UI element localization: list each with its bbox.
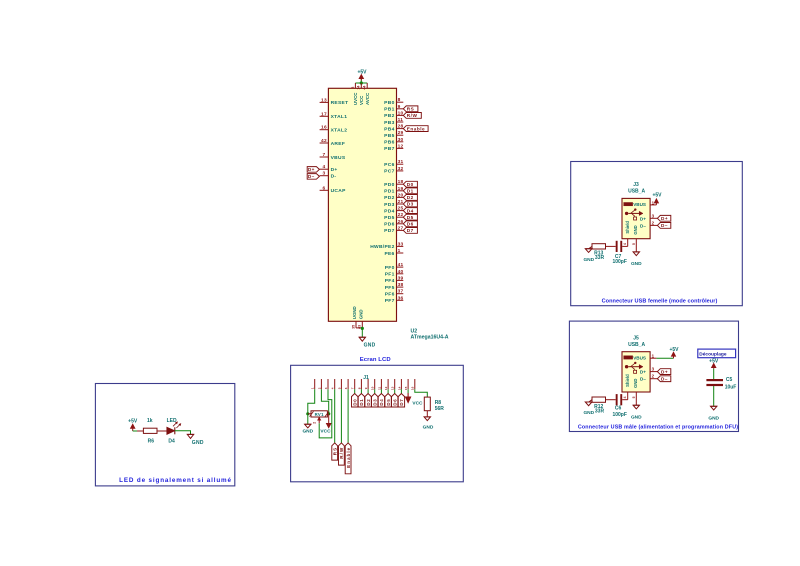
svg-text:5: 5 [632, 396, 636, 398]
pin 18 PD0 (right) [397, 183, 404, 185]
svg-text:4: 4 [623, 243, 627, 245]
svg-text:J5: J5 [633, 335, 639, 341]
wire J1 pin5 to label R/W [340, 389, 342, 443]
svg-text:GND: GND [192, 440, 204, 446]
junction bottom [361, 327, 364, 330]
svg-text:Découplage: Découplage [699, 352, 727, 358]
svg-text:12: 12 [384, 386, 388, 390]
svg-text:D4: D4 [168, 438, 175, 444]
svg-text:PB0: PB0 [384, 100, 394, 106]
pin 28 PB4 (right) [397, 128, 404, 130]
svg-text:XTAL1: XTAL1 [331, 114, 348, 120]
svg-text:Enable: Enable [346, 447, 351, 468]
svg-text:PB4: PB4 [384, 126, 394, 132]
svg-text:8: 8 [398, 97, 401, 103]
wire J1 pin9 to label D2 [367, 389, 369, 393]
pin 44 AVCC (top) [366, 83, 368, 88]
svg-text:10uF: 10uF [725, 384, 737, 390]
wire VBUS to +5V [656, 357, 673, 359]
svg-text:PC6: PC6 [384, 162, 394, 168]
svg-text:D+: D+ [331, 167, 338, 173]
svg-text:6: 6 [323, 185, 326, 191]
svg-text:6: 6 [344, 387, 348, 389]
svg-text:D0: D0 [407, 182, 414, 187]
svg-text:25: 25 [398, 206, 404, 212]
global label D7 [398, 394, 404, 408]
capacitor C plate wiring J5 [622, 399, 628, 401]
pin 11 PB3 (right) [397, 121, 404, 123]
power +5V at VBUS wire [673, 355, 675, 358]
pin 36 PF7 (right) [397, 299, 404, 301]
svg-text:36: 36 [398, 295, 404, 301]
svg-text:Shield: Shield [625, 221, 630, 234]
svg-text:Connecteur USB mâle (alimentat: Connecteur USB mâle (alimentation et pro… [578, 425, 738, 431]
svg-text:12: 12 [398, 143, 404, 149]
power +5V above U2 [360, 76, 362, 81]
svg-text:D7: D7 [399, 399, 404, 406]
connector J5 USB_A body [622, 352, 650, 392]
svg-text:D+: D+ [640, 370, 646, 375]
svg-text:41: 41 [398, 262, 404, 268]
svg-text:7: 7 [351, 387, 355, 389]
svg-text:PD2: PD2 [384, 195, 394, 201]
wire J1 pin13 to label D6 [394, 389, 396, 393]
svg-text:PD4: PD4 [384, 208, 394, 214]
svg-text:VCC: VCC [412, 400, 423, 406]
global label D0 [352, 394, 358, 408]
global label D+ [657, 215, 670, 221]
capacitor plates J3 [616, 241, 618, 252]
svg-text:GND: GND [358, 309, 363, 319]
svg-text:D0: D0 [353, 399, 358, 406]
power +5V at VBUS pin [655, 202, 657, 205]
pin 38 PF5 (right) [397, 286, 404, 288]
ground LED circuit [187, 433, 193, 435]
pin 4 D+ (left) [320, 168, 329, 170]
resistor 33R J3 chain [592, 244, 606, 249]
power VCC at RV1 right [328, 414, 330, 424]
wire +5V to top pins [355, 82, 367, 84]
svg-text:32: 32 [398, 166, 404, 172]
svg-text:Connecteur USB femelle (mode c: Connecteur USB femelle (mode contrôleur) [602, 298, 718, 304]
svg-text:VCC: VCC [320, 429, 331, 435]
pin 40 PF1 (right) [397, 273, 404, 275]
svg-text:GND: GND [364, 343, 376, 349]
pin 1 of J1 [314, 379, 316, 389]
note box LED [95, 384, 234, 486]
pin 8 of J1 [360, 379, 362, 389]
svg-text:9: 9 [364, 387, 368, 389]
capacitor C plate wiring J3 [622, 245, 628, 247]
svg-text:GND: GND [302, 429, 313, 435]
global label D2 [365, 394, 371, 408]
svg-text:GND: GND [708, 415, 719, 421]
junction RV1 right [327, 412, 330, 415]
pin 16 of J1 [414, 379, 416, 389]
wire J1 pin11 to label D4 [380, 389, 382, 393]
svg-text:33R: 33R [595, 409, 605, 415]
wire J1 pin14 to label D7 [400, 389, 402, 393]
wire J1 pin7 to label D0 [354, 389, 356, 393]
pin 37 PF6 (right) [397, 293, 404, 295]
wire J1 pin2 to RV1 right [321, 389, 328, 414]
svg-text:D–: D– [308, 174, 315, 179]
svg-text:UGND: UGND [352, 306, 357, 319]
svg-text:D–: D– [640, 223, 646, 228]
svg-text:11: 11 [377, 386, 381, 390]
svg-text:D–: D– [640, 377, 646, 382]
pin 7 VBUS (left) [320, 156, 329, 158]
svg-text:13: 13 [321, 97, 327, 103]
note box Ecran LCD [291, 365, 464, 482]
pin 11 of J1 [380, 379, 382, 389]
svg-text:D+: D+ [661, 369, 668, 374]
LED D4 [167, 427, 175, 434]
svg-text:D6: D6 [393, 399, 398, 406]
svg-text:Shield: Shield [625, 374, 630, 387]
svg-text:PD7: PD7 [384, 228, 394, 234]
svg-text:D4: D4 [407, 208, 414, 213]
svg-text:D4: D4 [379, 399, 384, 406]
svg-text:22: 22 [398, 212, 404, 218]
svg-text:PD6: PD6 [384, 222, 394, 228]
svg-text:VBUS: VBUS [331, 155, 346, 161]
svg-text:AREF: AREF [331, 141, 346, 147]
svg-text:2: 2 [317, 387, 321, 389]
pin 4 of J1 [334, 379, 336, 389]
pin 3 of J1 [327, 379, 329, 389]
wire +5V to C5 [713, 369, 715, 379]
svg-text:LED de signalement si allumé: LED de signalement si allumé [119, 477, 232, 484]
ground below R8 [424, 416, 430, 418]
J5 pin 1 VBUS [650, 357, 656, 359]
pin 43 GND (bottom) [361, 321, 363, 328]
svg-text:2: 2 [652, 220, 655, 225]
power VCC at J1 pin15 [407, 393, 409, 399]
svg-text:PF1: PF1 [385, 272, 395, 278]
global label D+ [657, 369, 670, 375]
J3 USB trident icon [625, 208, 643, 220]
svg-text:29: 29 [398, 130, 404, 136]
pin 14 of J1 [400, 379, 402, 389]
svg-text:D–: D– [661, 376, 668, 381]
svg-text:8: 8 [357, 387, 361, 389]
note box Connecteur USB male [569, 321, 738, 431]
svg-text:R/W: R/W [407, 113, 418, 118]
pin 1 PE6 (right) [397, 252, 404, 254]
pin 9 PB1 (right) [397, 108, 404, 110]
global label D1 [403, 188, 417, 194]
global label D4 [403, 208, 417, 214]
svg-text:+5V: +5V [128, 419, 138, 425]
J5 pin 4 Shield [627, 392, 629, 400]
svg-text:D2: D2 [366, 399, 371, 406]
svg-text:GND: GND [423, 425, 434, 431]
pin 21 PD3 (right) [397, 203, 404, 205]
pin 15 of J1 [407, 379, 409, 389]
svg-text:1k: 1k [147, 418, 153, 424]
global label D3 [372, 394, 378, 408]
pin 26 PD6 (right) [397, 223, 404, 225]
global label D6 [392, 394, 398, 408]
global label D4 [378, 394, 384, 408]
svg-text:3: 3 [323, 171, 326, 177]
svg-text:42: 42 [321, 138, 327, 144]
svg-text:Ecran LCD: Ecran LCD [360, 357, 391, 363]
pin 6 of J1 [347, 379, 349, 389]
svg-text:GND: GND [583, 257, 594, 263]
global label D+ (left of U2) [307, 167, 319, 173]
svg-text:27: 27 [398, 225, 404, 231]
pin 14 VCC (top) [360, 83, 362, 88]
svg-text:D2: D2 [407, 195, 414, 200]
IC U2 ATmega16U4-A body [328, 88, 396, 321]
pin 17 XTAL1 (left) [320, 115, 329, 117]
svg-text:1: 1 [398, 248, 401, 254]
capacitor C5 10uF [706, 379, 723, 381]
note box Connecteur USB femelle [571, 162, 743, 306]
svg-text:J3: J3 [633, 182, 639, 188]
wire J1 pin15 to VCC [407, 389, 409, 393]
global label D3 [403, 201, 417, 207]
wire J1 pin16 to R8 [415, 389, 428, 397]
pin 39 PF4 (right) [397, 279, 404, 281]
J5 pin 5 GND [635, 392, 637, 405]
svg-text:26: 26 [398, 219, 404, 225]
pin 13 of J1 [394, 379, 396, 389]
resistor R6 1k [137, 430, 143, 432]
svg-text:PB5: PB5 [384, 133, 394, 139]
svg-text:PC7: PC7 [384, 169, 394, 175]
pin 35 UGND (bottom) [355, 321, 357, 328]
svg-text:GND: GND [583, 410, 594, 416]
global label D7 [403, 228, 417, 234]
svg-text:GND: GND [631, 414, 642, 420]
svg-text:PD0: PD0 [384, 182, 394, 188]
svg-text:2: 2 [351, 87, 355, 89]
svg-text:UCAP: UCAP [331, 188, 346, 194]
svg-text:Enable: Enable [407, 126, 425, 131]
svg-text:1: 1 [311, 387, 315, 389]
pin 5 of J1 [340, 379, 342, 389]
wire D4 to ground [175, 431, 191, 435]
svg-text:D6: D6 [407, 222, 414, 227]
svg-text:3: 3 [652, 213, 655, 218]
J3 VBUS tab graphic [624, 203, 633, 206]
pin 42 AREF (left) [320, 142, 329, 144]
wire J1 pin3 to RV1 wiper [319, 389, 332, 438]
svg-text:USB_A: USB_A [628, 189, 645, 195]
junction top pins [360, 81, 363, 84]
pin 2 of J1 [320, 379, 322, 389]
svg-text:14: 14 [357, 86, 361, 90]
svg-text:D5: D5 [407, 215, 414, 220]
svg-text:GND: GND [631, 261, 642, 267]
pin 9 of J1 [367, 379, 369, 389]
svg-text:PF6: PF6 [385, 292, 395, 298]
pin 16 XTAL2 (left) [320, 129, 329, 131]
svg-text:39: 39 [398, 275, 404, 281]
pin 27 PD7 (right) [397, 229, 404, 231]
svg-text:5: 5 [337, 387, 341, 389]
svg-text:PF4: PF4 [385, 278, 395, 284]
svg-text:D1: D1 [359, 399, 364, 406]
svg-text:4: 4 [331, 387, 335, 389]
J3 pin 1 VBUS [650, 204, 656, 206]
J3 pin 5 GND [635, 239, 637, 252]
global label D- (left of U2) [307, 174, 319, 180]
wiper pin RV1 [318, 417, 320, 423]
global label RS [403, 106, 418, 112]
global label D5 [385, 394, 391, 408]
ground below C5 [711, 405, 717, 407]
svg-text:+5V: +5V [652, 193, 662, 199]
pin 25 PD4 (right) [397, 210, 404, 212]
ground below J3 [633, 251, 639, 253]
wire J1 pin8 to label D1 [360, 389, 362, 393]
svg-text:PD5: PD5 [384, 215, 394, 221]
svg-text:17: 17 [321, 111, 327, 117]
pin 41 PF0 (right) [397, 266, 404, 268]
pin 33 HWB/PE2 (right) [397, 245, 404, 247]
svg-text:C6: C6 [615, 406, 622, 412]
svg-text:+5V: +5V [669, 347, 679, 353]
svg-text:PE6: PE6 [384, 251, 394, 257]
svg-text:35: 35 [351, 325, 355, 329]
svg-text:PB7: PB7 [384, 146, 394, 152]
svg-text:11: 11 [398, 117, 404, 123]
svg-text:19: 19 [398, 186, 404, 192]
junction RV1 left [306, 412, 309, 415]
connector J3 USB_A body [622, 198, 650, 238]
svg-text:C5: C5 [726, 377, 733, 383]
svg-text:HWB/PE2: HWB/PE2 [370, 244, 394, 250]
potentiometer RV1 [308, 413, 311, 415]
svg-text:D5: D5 [386, 399, 391, 406]
J5 pin 3 D+ [650, 371, 657, 373]
resistor 33R J5 chain [592, 397, 606, 402]
pin 3 D- (left) [320, 175, 329, 177]
svg-text:PB2: PB2 [384, 113, 394, 119]
svg-text:31: 31 [398, 159, 404, 165]
svg-text:5: 5 [632, 243, 636, 245]
power +5V LED circuit [132, 426, 134, 431]
wire J1 pin6 to label Enable [347, 389, 349, 443]
wire C5 to ground [713, 386, 715, 406]
svg-text:PF7: PF7 [385, 298, 395, 304]
svg-text:D-: D- [331, 174, 337, 180]
svg-text:ATmega16U4-A: ATmega16U4-A [411, 335, 449, 341]
J5 USB trident icon [625, 362, 643, 374]
svg-text:33: 33 [398, 241, 404, 247]
resistor R8 56R [424, 397, 430, 411]
ground RV1 left [305, 423, 311, 425]
pin 10 PB2 (right) [397, 114, 404, 116]
svg-text:R6: R6 [148, 438, 155, 444]
svg-text:GND: GND [633, 225, 638, 234]
svg-text:D3: D3 [373, 399, 378, 406]
svg-text:16: 16 [411, 386, 415, 390]
ground below U2 [359, 336, 365, 338]
svg-text:16: 16 [321, 125, 327, 131]
global label D- [657, 223, 670, 229]
ground below J5 [633, 404, 639, 406]
note frame Decouplage [698, 349, 736, 358]
svg-text:7: 7 [323, 152, 326, 158]
global label R/W [339, 443, 345, 465]
svg-text:VBUS: VBUS [633, 356, 646, 361]
global label RS [332, 443, 338, 460]
svg-text:40: 40 [398, 269, 404, 275]
svg-text:XTAL2: XTAL2 [331, 128, 348, 134]
svg-text:PB1: PB1 [384, 107, 394, 113]
wire to ground [361, 328, 363, 337]
svg-text:D1: D1 [407, 189, 414, 194]
svg-text:VCC: VCC [359, 95, 364, 105]
svg-text:100pF: 100pF [612, 259, 626, 265]
J5 pin 2 D- [650, 378, 657, 380]
capacitor plates J5 [616, 394, 618, 405]
svg-text:30: 30 [398, 137, 404, 143]
pin 22 PD5 (right) [397, 216, 404, 218]
svg-text:LED: LED [167, 418, 177, 424]
svg-text:100pF: 100pF [612, 412, 626, 418]
global label D6 [403, 221, 417, 227]
global label D5 [403, 214, 417, 220]
svg-text:D+: D+ [640, 216, 646, 221]
ground left of resistor J5 chain [589, 400, 592, 402]
global label Enable [403, 126, 428, 132]
svg-text:38: 38 [398, 282, 404, 288]
svg-text:AVCC: AVCC [365, 92, 370, 105]
svg-text:RV1: RV1 [315, 412, 324, 417]
pin 32 PC7 (right) [397, 170, 404, 172]
svg-text:VBUS: VBUS [633, 202, 646, 207]
wire J1 pin10 to label D3 [374, 389, 376, 393]
svg-text:10: 10 [398, 110, 404, 116]
pin 19 PD1 (right) [397, 190, 404, 192]
svg-text:20: 20 [398, 192, 404, 198]
pin 7 of J1 [354, 379, 356, 389]
svg-text:4: 4 [323, 164, 326, 170]
pin 30 PB6 (right) [397, 141, 404, 143]
global label D- [657, 376, 670, 382]
svg-text:+5V: +5V [357, 70, 367, 76]
svg-text:D7: D7 [407, 228, 414, 233]
svg-text:USB_A: USB_A [628, 342, 645, 348]
svg-text:RS: RS [332, 447, 337, 455]
svg-text:37: 37 [398, 289, 404, 295]
svg-text:2: 2 [652, 374, 655, 379]
svg-text:PB6: PB6 [384, 140, 394, 146]
J5 VBUS tab graphic [624, 356, 633, 359]
svg-text:18: 18 [398, 179, 404, 185]
J3 pin 3 D+ [650, 217, 657, 219]
svg-text:D3: D3 [407, 202, 414, 207]
wire J1 pin12 to label D5 [387, 389, 389, 393]
pin 31 PC6 (right) [397, 163, 404, 165]
pin 29 PB5 (right) [397, 134, 404, 136]
svg-text:21: 21 [398, 199, 404, 205]
svg-text:D–: D– [661, 223, 668, 228]
svg-text:PF0: PF0 [385, 265, 395, 271]
global label D2 [403, 195, 417, 201]
svg-text:U2: U2 [411, 328, 418, 334]
svg-text:10: 10 [371, 386, 375, 390]
pin 8 PB0 (right) [397, 101, 404, 103]
ground left of resistor J3 chain [589, 246, 592, 248]
wire bottom pins join [356, 327, 362, 329]
